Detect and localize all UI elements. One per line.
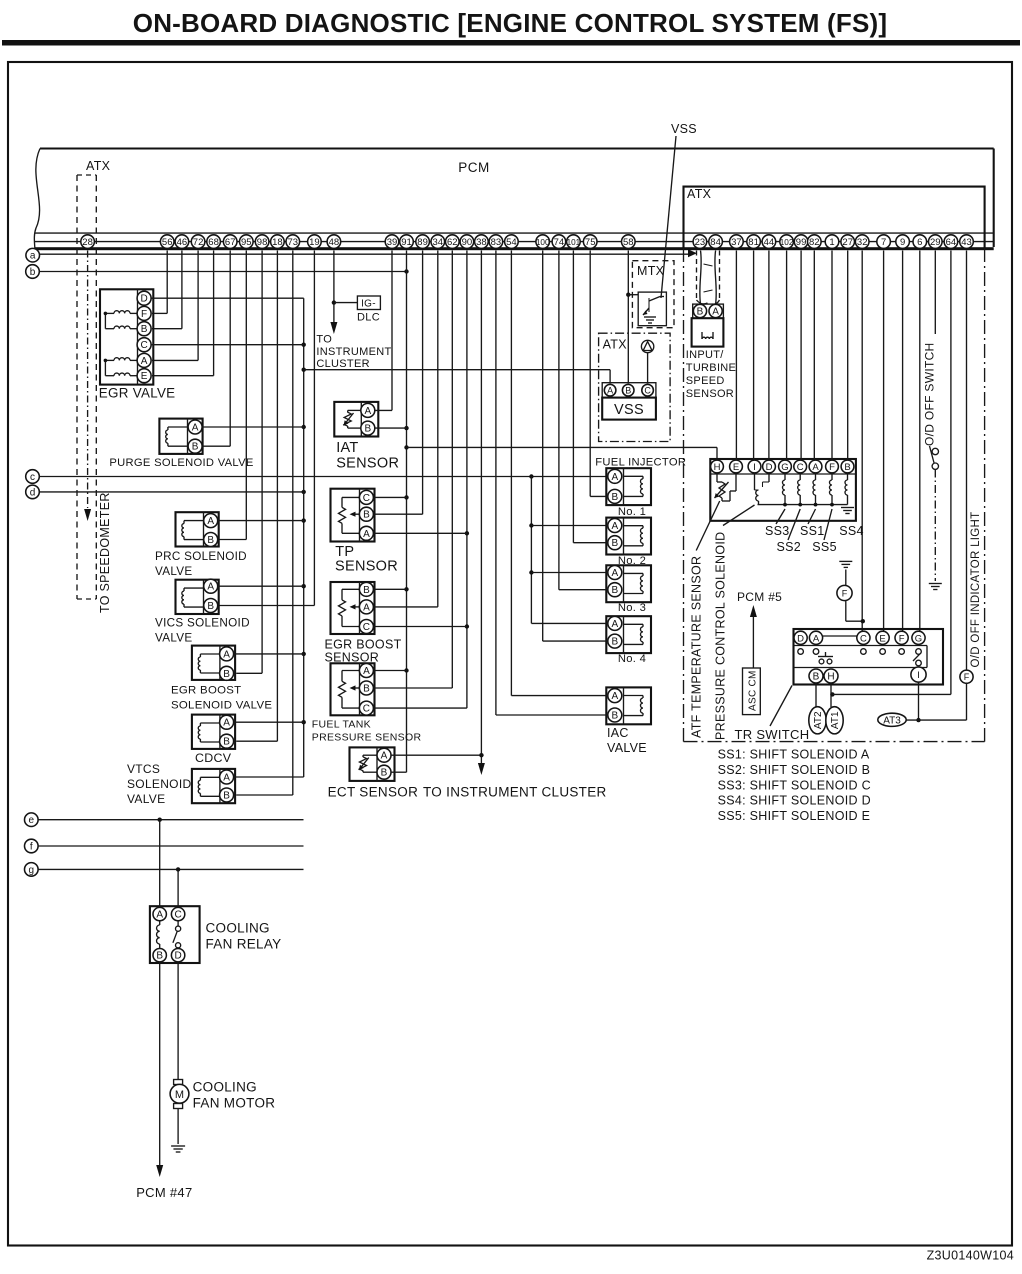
PCM pin 1: [825, 235, 839, 249]
TP sensor body: [331, 489, 375, 542]
svg-text:c: c: [30, 472, 35, 483]
svg-text:VSS: VSS: [614, 402, 644, 418]
svg-text:100: 100: [536, 238, 550, 247]
ECT sensor body: [350, 747, 395, 781]
wire e to relay A: [159, 820, 161, 908]
MTX speed sensor box: [638, 292, 666, 326]
PCM pin 6: [913, 235, 927, 249]
svg-text:C: C: [644, 386, 651, 396]
wire TP A to 90 bus: [373, 532, 467, 534]
ATF TEMPERATURE SENSOR label: [690, 556, 704, 738]
EGR boost sensor body: [331, 582, 375, 634]
PCM pin 98: [255, 235, 269, 249]
TP sensor pin B: [359, 507, 373, 521]
wire supply to injector 3 A: [531, 572, 608, 574]
cooling fan motor: [170, 1080, 189, 1109]
svg-text:75: 75: [585, 237, 596, 248]
wire injector 3 B to pin 74: [559, 251, 608, 590]
svg-text:F: F: [141, 309, 147, 320]
svg-text:E: E: [879, 633, 885, 644]
wire supply to injector 2 A: [531, 525, 608, 527]
wire ECT B to 91 bus end: [391, 771, 407, 773]
PCM torn left edge: [34, 149, 40, 253]
node e: [25, 813, 39, 827]
ATF block pin C: [794, 460, 807, 473]
svg-text:48: 48: [329, 237, 340, 248]
IAT SENSOR label: [336, 440, 399, 471]
wire pin 54 to IAC A: [511, 251, 608, 696]
svg-text:M: M: [175, 1089, 184, 1101]
title rule: [2, 40, 1020, 46]
svg-text:AT2: AT2: [813, 711, 824, 729]
svg-text:SS4: SHIFT SOLENOID D: SS4: SHIFT SOLENOID D: [718, 794, 871, 808]
svg-text:B: B: [364, 424, 371, 435]
input/turbine speed sensor wires: [700, 251, 716, 305]
No. 4 label: [618, 653, 646, 665]
PCM pin 95: [240, 235, 254, 249]
svg-text:B: B: [844, 462, 850, 473]
svg-text:56: 56: [162, 237, 173, 248]
VTCS solenoid valve body: [192, 769, 235, 803]
svg-text:B: B: [223, 791, 230, 802]
ATF block pin G: [779, 460, 792, 473]
svg-text:1: 1: [829, 237, 834, 248]
PRESSURE CONTROL SOLENOID leader: [723, 505, 755, 526]
wire pin 28 to speedometer arrow: [84, 251, 91, 522]
svg-text:B: B: [156, 951, 163, 962]
svg-text:FAN RELAY: FAN RELAY: [206, 937, 282, 952]
wire relay D to fan motor: [177, 962, 179, 1080]
ATF block pin row line: [710, 473, 856, 475]
svg-text:IAT: IAT: [336, 440, 358, 456]
wire sensor F to pin 32 line: [846, 601, 864, 622]
TR switch pin E: [876, 631, 889, 644]
EGR valve pin D: [137, 291, 151, 305]
svg-text:TO SPEEDOMETER: TO SPEEDOMETER: [98, 492, 112, 613]
EGR boost sensor pin B: [359, 582, 373, 596]
PURGE SOLENOID VALVE label: [109, 457, 253, 469]
wire pin 89 to TP B: [373, 251, 422, 515]
fuel injector No.4 body: [606, 616, 651, 653]
fuel injector No.3 body: [606, 565, 651, 602]
svg-text:B: B: [697, 307, 704, 318]
PCM pin 100: [536, 235, 550, 249]
VTCS SOLENOID VALVE label: [127, 762, 191, 806]
sensor F circle: [837, 585, 852, 600]
purge solenoid valve pin B: [188, 439, 202, 453]
svg-text:SS2: SHIFT SOLENOID B: SS2: SHIFT SOLENOID B: [718, 763, 871, 777]
fuel tank pressure sensor pin C: [359, 701, 373, 715]
svg-text:46: 46: [177, 237, 188, 248]
CDCV label: [195, 751, 232, 765]
fuel tank pressure sensor pin B: [359, 681, 373, 695]
CDCV pin B: [220, 734, 234, 748]
cooling fan relay pin D: [171, 949, 184, 962]
svg-text:ASC CM: ASC CM: [748, 670, 759, 711]
svg-text:64: 64: [946, 237, 957, 248]
svg-text:67: 67: [225, 237, 236, 248]
svg-text:A: A: [611, 619, 618, 630]
fuel tank pressure sensor body: [331, 663, 375, 715]
wire pin 102 to ATF G: [786, 251, 788, 460]
ATF block pin I: [748, 460, 761, 473]
svg-text:SS1: SHIFT SOLENOID A: SS1: SHIFT SOLENOID A: [718, 748, 870, 762]
SS4 label: [839, 524, 864, 538]
VSS leader line: [661, 136, 676, 298]
svg-text:19: 19: [309, 237, 320, 248]
svg-text:39: 39: [387, 237, 398, 248]
svg-text:DLC: DLC: [357, 312, 380, 324]
svg-text:AT1: AT1: [830, 711, 841, 729]
wire pin 44 to ATF D: [768, 251, 770, 460]
svg-text:H: H: [714, 462, 721, 473]
wire ECT A to cluster line: [391, 754, 484, 756]
svg-text:6: 6: [917, 237, 922, 248]
No. 2 label: [618, 555, 646, 567]
wire pin 91 ground bus: [404, 251, 408, 773]
PCM pin 27: [841, 235, 855, 249]
wire pin 27 to ATF B: [847, 251, 849, 460]
svg-text:TURBINE: TURBINE: [686, 362, 736, 374]
CDCV pin A: [220, 715, 234, 729]
connector AT1: [826, 707, 843, 734]
svg-text:98: 98: [257, 237, 268, 248]
input/turbine speed sensor shield: [697, 251, 720, 305]
svg-text:A: A: [611, 691, 618, 702]
wire AT3 to indicator line: [906, 719, 966, 721]
SS5 label: [812, 540, 837, 554]
wire pin 83 to IAC B: [496, 251, 608, 716]
EGR boost solenoid valve body: [192, 646, 235, 680]
ECT SENSOR label: [328, 785, 419, 800]
wire pin 1 to ATF F: [831, 251, 833, 460]
wire pin 9 to TR F: [902, 251, 904, 632]
ATX VSS dash-dot box: [599, 333, 671, 441]
PCM pin 68: [207, 235, 221, 249]
EGR valve pin C: [137, 338, 151, 352]
svg-text:SS1: SS1: [800, 524, 825, 538]
svg-text:A: A: [223, 649, 230, 660]
IAC valve pin A: [608, 689, 622, 703]
svg-text:No. 3: No. 3: [618, 602, 646, 614]
TR switch pin B: [809, 669, 823, 683]
svg-text:A: A: [381, 751, 388, 762]
PCM bus bar: [35, 247, 994, 250]
svg-text:B: B: [207, 601, 214, 612]
svg-text:F: F: [842, 589, 848, 599]
svg-text:7: 7: [881, 237, 886, 248]
svg-text:B: B: [611, 585, 618, 596]
PRESSURE CONTROL SOLENOID label: [714, 532, 728, 740]
EGR boost sensor pin C: [359, 620, 373, 634]
PCM #5 label: [737, 590, 782, 604]
TR switch body: [794, 629, 944, 685]
wire f: [38, 845, 303, 847]
wire VICS A to d-bus: [218, 585, 304, 587]
EGR valve pin E: [137, 369, 151, 383]
CDCV body: [192, 715, 235, 749]
input/turbine speed sensor pin B: [693, 304, 706, 317]
PCM pin 81: [747, 235, 761, 249]
wire pin 48 to DLC and instrument cluster: [330, 251, 357, 335]
pressure control solenoid element: [755, 473, 770, 505]
EGR valve body: [100, 289, 153, 384]
wire ASC CM to PCM #5: [750, 605, 757, 668]
PCM pin 37: [730, 235, 744, 249]
VICS solenoid valve pin A: [204, 579, 218, 593]
svg-text:PRC SOLENOID: PRC SOLENOID: [155, 550, 247, 563]
svg-text:O/D OFF INDICATOR LIGHT: O/D OFF INDICATOR LIGHT: [970, 512, 982, 668]
svg-text:A: A: [363, 529, 370, 540]
svg-text:B: B: [625, 386, 631, 396]
svg-text:89: 89: [417, 237, 428, 248]
SS1 label: [800, 524, 825, 538]
wire pin 29 to O/D off switch: [934, 251, 936, 335]
EGR valve pin B: [137, 322, 151, 336]
svg-text:B: B: [611, 492, 618, 503]
TR switch pin C: [857, 631, 870, 644]
fuel injector No.1 pin A: [608, 469, 622, 483]
svg-text:A: A: [207, 582, 214, 593]
wire a: [40, 249, 698, 257]
PCM #47 label: [136, 1185, 192, 1200]
PCM pin 67: [223, 235, 237, 249]
cooling fan relay pin C: [171, 907, 184, 920]
wire pin 67 to purge valve B: [203, 251, 230, 447]
EGR VALVE label: [99, 385, 176, 400]
svg-text:SENSOR: SENSOR: [335, 559, 398, 575]
IAT sensor body: [334, 402, 378, 437]
fuel tank pressure sensor pin A: [359, 664, 373, 678]
No. 3 label: [618, 602, 646, 614]
DLC label: [357, 312, 380, 324]
svg-text:SS4: SS4: [839, 524, 864, 538]
TR switch pin G: [912, 631, 925, 644]
svg-text:PURGE SOLENOID VALVE: PURGE SOLENOID VALVE: [109, 457, 253, 469]
svg-text:e: e: [29, 815, 35, 826]
ATF block pin A: [809, 460, 822, 473]
svg-text:B: B: [611, 538, 618, 549]
TO INSTRUMENT CLUSTER label (lower): [423, 785, 607, 800]
svg-text:G: G: [915, 633, 922, 644]
TR switch aux contacts: [818, 652, 833, 664]
wire pin 98 to EGR boost valve B: [236, 251, 262, 674]
wire fuel tank C to 90 bus: [373, 707, 467, 709]
VTCS solenoid valve pin A: [220, 770, 234, 784]
purge solenoid valve pin A: [188, 420, 202, 434]
VTCS solenoid valve pin B: [220, 788, 234, 802]
svg-text:SENSOR: SENSOR: [325, 650, 380, 664]
svg-text:D: D: [174, 951, 181, 962]
fuel injector No.2 pin B: [608, 536, 622, 550]
svg-text:73: 73: [288, 237, 299, 248]
ECT sensor pin A: [377, 748, 391, 762]
IAC VALVE label: [607, 726, 647, 755]
svg-text:68: 68: [208, 237, 219, 248]
svg-text:g: g: [29, 865, 35, 876]
wire TR H to AT1: [830, 683, 834, 707]
PCM box right edge: [993, 149, 995, 248]
svg-text:B: B: [223, 669, 230, 680]
ATF block pin D: [763, 460, 776, 473]
svg-text:d: d: [30, 487, 36, 498]
wire pin 46 to EGR B: [152, 251, 182, 329]
svg-text:A: A: [156, 910, 163, 921]
wire injector 4 B to pin 100: [543, 251, 609, 642]
wire IAT B to 91 bus: [375, 427, 407, 429]
svg-text:A: A: [611, 521, 618, 532]
svg-text:SS5: SS5: [812, 540, 837, 554]
ATX VSS pin box: [602, 383, 656, 398]
svg-text:b: b: [30, 267, 36, 278]
EGR BOOST SOLENOID VALVE label: [171, 685, 272, 712]
svg-text:C: C: [140, 340, 147, 351]
TR switch I pin: [911, 667, 926, 682]
PCM label: [458, 160, 490, 175]
svg-text:F: F: [899, 633, 905, 644]
wire e: [38, 818, 303, 822]
svg-text:32: 32: [857, 237, 868, 248]
PCM pin 18: [271, 235, 285, 249]
PCM pin 48: [327, 235, 341, 249]
TR switch pin F: [895, 631, 908, 644]
wire indicator light to AT3 line: [966, 683, 968, 720]
node b: [26, 265, 40, 279]
COOLING FAN MOTOR label: [193, 1080, 276, 1111]
input/turbine speed sensor pin box: [693, 304, 724, 318]
svg-text:SENSOR: SENSOR: [686, 388, 734, 400]
wire TR B to AT2: [815, 683, 817, 707]
ATX VSS label: [603, 338, 628, 352]
cooling fan relay body: [150, 906, 200, 963]
PRC solenoid valve pin B: [204, 533, 218, 547]
svg-text:Z3U0140W104: Z3U0140W104: [927, 1249, 1014, 1263]
ATF block pin B: [841, 460, 854, 473]
svg-text:VTCS: VTCS: [127, 762, 160, 776]
wire pin 64 to TR H: [832, 251, 951, 695]
svg-text:AT3: AT3: [883, 715, 901, 726]
svg-text:INSTRUMENT: INSTRUMENT: [316, 346, 391, 358]
svg-text:27: 27: [842, 237, 853, 248]
svg-text:102: 102: [780, 238, 794, 247]
EGR valve pin F: [137, 306, 151, 320]
ground above sensor F: [839, 561, 852, 585]
VICS solenoid valve pin B: [204, 599, 218, 613]
svg-text:F: F: [829, 462, 835, 473]
wire 91 bus to ATF sensor H: [407, 447, 718, 459]
wire pin 72 to EGR A: [152, 251, 198, 361]
svg-text:SOLENOID: SOLENOID: [127, 777, 191, 791]
svg-text:IAC: IAC: [607, 726, 629, 740]
svg-text:A: A: [141, 356, 148, 367]
SS2 leader: [788, 509, 800, 540]
PCM pin 54: [505, 235, 519, 249]
PCM connector strip line lower: [35, 241, 994, 243]
IG-DLC box: [357, 296, 380, 310]
PCM pin 99: [794, 235, 808, 249]
TP SENSOR label: [335, 544, 398, 575]
ECT sensor pin B: [377, 765, 391, 779]
svg-text:ATX: ATX: [603, 338, 628, 352]
PCM pin 9: [896, 235, 910, 249]
svg-text:C: C: [797, 462, 804, 473]
svg-text:FUEL INJECTOR: FUEL INJECTOR: [595, 456, 686, 468]
ATX VSS pin C: [642, 384, 654, 396]
svg-text:E: E: [733, 462, 739, 473]
PCM pin 75: [583, 235, 597, 249]
svg-text:A: A: [812, 462, 819, 473]
svg-text:ON-BOARD DIAGNOSTIC [ENGINE CO: ON-BOARD DIAGNOSTIC [ENGINE CONTROL SYST…: [133, 8, 887, 38]
svg-text:E: E: [141, 371, 148, 382]
TP sensor pin A: [359, 526, 373, 540]
PCM pin 84: [709, 235, 723, 249]
svg-text:COOLING: COOLING: [193, 1080, 257, 1095]
wire pin 18 to CDCV B: [236, 251, 277, 742]
COOLING FAN RELAY label: [206, 921, 282, 952]
svg-text:TO: TO: [316, 333, 332, 345]
EGR boost solenoid valve pin A: [220, 647, 234, 661]
svg-text:FAN MOTOR: FAN MOTOR: [193, 1096, 276, 1111]
shift solenoid coils SS1-SS5 and ground: [758, 473, 855, 514]
svg-text:f: f: [30, 842, 33, 853]
wire pin 62 to fuel tank B: [373, 251, 452, 689]
purge solenoid valve body: [159, 419, 202, 454]
wire pin 73 to VTCS valve B: [236, 251, 293, 796]
svg-text:PRESSURE SENSOR: PRESSURE SENSOR: [312, 732, 422, 744]
fuel injector No.1 pin B: [608, 489, 622, 503]
PCM pin 39: [385, 235, 399, 249]
svg-text:VICS SOLENOID: VICS SOLENOID: [155, 617, 250, 630]
svg-text:IG-: IG-: [361, 299, 376, 310]
wire pin 95 to PRC valve B: [219, 251, 246, 540]
ATF temperature sensor element: [715, 473, 737, 501]
svg-text:F: F: [964, 672, 970, 682]
svg-text:INPUT/: INPUT/: [686, 349, 724, 361]
svg-text:B: B: [381, 768, 388, 779]
svg-text:84: 84: [710, 237, 721, 248]
fuel injector No.1 body: [606, 468, 651, 505]
fuel injector No.2 pin A: [608, 519, 622, 533]
wire EGR boost C to 90 bus: [373, 626, 467, 628]
svg-text:A: A: [611, 568, 618, 579]
O/D off switch ground wire: [929, 470, 942, 590]
ATX (PCM right) label: [687, 187, 712, 201]
wire VTCS A to d-bus: [234, 776, 304, 778]
node g: [25, 863, 39, 877]
figure number Z3U0140W104: [927, 1249, 1014, 1263]
svg-text:C: C: [860, 633, 867, 644]
fuel injector No.3 pin A: [608, 566, 622, 580]
wire pin 43 to indicator light: [966, 251, 968, 671]
EGR valve pin A: [137, 353, 151, 367]
ATF sensor and pressure control solenoid box: [710, 459, 856, 521]
wire ATX VSS sender to C: [647, 353, 649, 384]
SS1 leader: [808, 509, 816, 524]
svg-text:SENSOR: SENSOR: [336, 455, 399, 471]
ATX (left) label: [86, 159, 111, 173]
PCM pin 82: [808, 235, 822, 249]
PCM pin 62: [446, 235, 460, 249]
wire EGR D to d-bus: [151, 297, 304, 299]
wire injector 1 B to pin 75: [590, 251, 608, 497]
PCM pin 38: [475, 235, 489, 249]
TR switch pin A: [809, 631, 822, 644]
node d distribution bus: [302, 298, 306, 777]
PCM pin 101: [567, 235, 581, 249]
injector supply bus from node c: [529, 477, 533, 624]
PCM pin 58: [622, 235, 636, 249]
ATX (left) dashed box: [77, 175, 96, 599]
